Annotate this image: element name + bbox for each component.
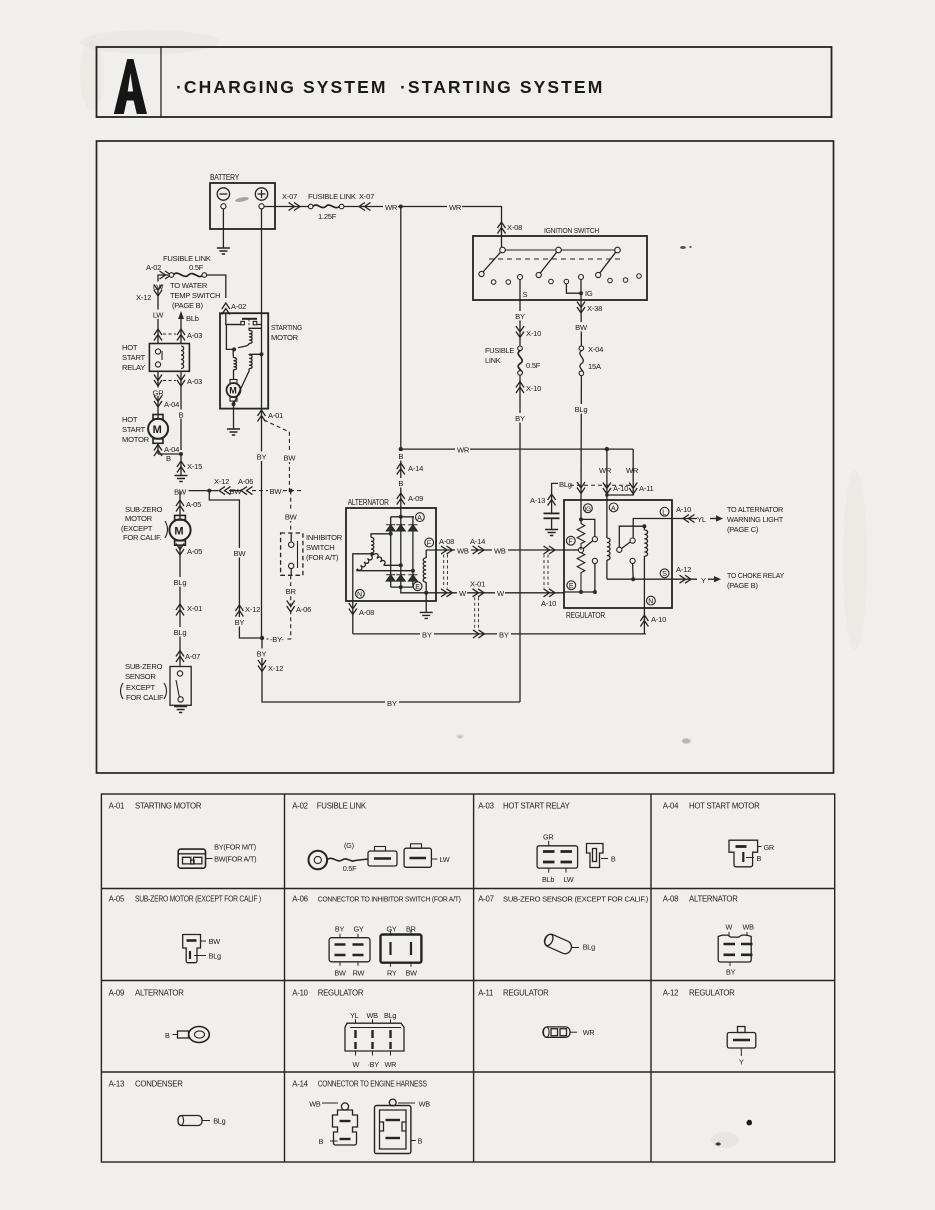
- terminal IG: [566, 275, 593, 301]
- connector A-14 on WB: [470, 537, 485, 554]
- wire BW elbow down (BY branch): [209, 491, 262, 638]
- svg-text:M: M: [174, 525, 183, 537]
- svg-text:A-03: A-03: [478, 802, 493, 811]
- cell A-10 regulator connector: [292, 989, 404, 1070]
- regulator S wire: [607, 577, 672, 581]
- svg-text:X-10: X-10: [526, 329, 541, 338]
- svg-text:BY: BY: [387, 699, 397, 708]
- svg-text:A-13: A-13: [109, 1080, 124, 1089]
- svg-text:(G): (G): [344, 841, 354, 850]
- cell A-09 alternator eye terminal: [109, 989, 210, 1043]
- cell A-12 regulator small: [663, 989, 756, 1067]
- cell A-06 connector to inhibitor switch: [292, 895, 460, 978]
- ground starting motor: [227, 429, 240, 435]
- svg-text:F: F: [568, 539, 572, 546]
- svg-text:X-07: X-07: [282, 192, 297, 201]
- svg-text:TO ALTERNATOR: TO ALTERNATOR: [727, 505, 784, 514]
- wire S to BY fusible link: [513, 300, 542, 346]
- svg-text:0.5F: 0.5F: [189, 263, 204, 272]
- svg-text:BW: BW: [209, 937, 221, 946]
- connector A-01: [258, 404, 284, 422]
- svg-text:(FOR A/T): (FOR A/T): [306, 553, 339, 562]
- connector BLg chevrons: [577, 482, 585, 494]
- label SUB-ZERO MOTOR: [121, 505, 168, 542]
- svg-text:X-12: X-12: [136, 293, 151, 302]
- fusible link 0.5F: [163, 254, 211, 277]
- label BY: [254, 452, 269, 462]
- svg-text:A-06: A-06: [292, 895, 307, 904]
- svg-text:CONDENSER: CONDENSER: [135, 1080, 183, 1089]
- regulator F wire: [564, 549, 578, 551]
- svg-text:(EXCEPT: (EXCEPT: [121, 524, 153, 533]
- svg-text:FUSIBLE LINK: FUSIBLE LINK: [308, 192, 356, 201]
- svg-text:STARTING: STARTING: [271, 323, 302, 332]
- svg-text:RELAY: RELAY: [122, 363, 145, 372]
- svg-text:GR: GR: [543, 833, 553, 842]
- sub-zero sensor: [170, 667, 191, 706]
- svg-text:ALTERNATOR: ALTERNATOR: [348, 498, 390, 507]
- cell A-11 regulator bullet: [478, 989, 594, 1038]
- svg-text:·BY: ·BY: [368, 1060, 380, 1069]
- node B coil junction: [260, 352, 264, 356]
- svg-text:BW·: BW·: [270, 487, 284, 496]
- svg-text:-BY-: -BY-: [270, 635, 284, 644]
- connector A-04 upper: [154, 396, 179, 419]
- svg-text:HOT START RELAY: HOT START RELAY: [503, 802, 571, 811]
- cell A-04 hot start motor: [663, 802, 774, 867]
- terminal S regulator: [660, 569, 669, 578]
- label -BY-: [269, 634, 287, 644]
- svg-text:BLb: BLb: [542, 875, 554, 884]
- cell A-14 connector to engine harness: [292, 1080, 430, 1154]
- svg-text:B: B: [398, 479, 403, 488]
- connector A-02 right: [222, 302, 246, 315]
- svg-text:BY(FOR M/T): BY(FOR M/T): [214, 843, 256, 852]
- connector X-08: [498, 222, 523, 234]
- wire BY below fusible link: [513, 375, 542, 702]
- node WR-B junction: [399, 447, 403, 451]
- svg-text:SUB-ZERO: SUB-ZERO: [125, 505, 163, 514]
- cell A-02 fusible link: [292, 802, 449, 874]
- svg-text:A-05: A-05: [186, 500, 201, 509]
- rotor field coil: [423, 550, 426, 593]
- terminal F regulator: [566, 536, 575, 545]
- svg-text:BY: BY: [515, 312, 525, 321]
- svg-text:A: A: [611, 505, 616, 512]
- label LW: [150, 282, 166, 292]
- ignition switch: [473, 236, 647, 300]
- label WR right: [447, 202, 462, 212]
- wire BW horizontal at 490.6: [172, 477, 303, 497]
- svg-text:X-15: X-15: [187, 462, 202, 471]
- svg-text:A-10: A-10: [676, 505, 691, 514]
- svg-text:Y: Y: [701, 576, 706, 585]
- ground battery: [217, 248, 230, 254]
- svg-text:WB: WB: [494, 546, 506, 555]
- svg-text:A-02: A-02: [146, 263, 161, 272]
- alternator top bus: [391, 515, 414, 519]
- terminal S: [518, 275, 528, 301]
- connector A-03 lower: [154, 371, 202, 450]
- label INHIBITOR SWITCH: [306, 533, 343, 562]
- svg-text:A-05: A-05: [187, 547, 202, 556]
- svg-text:A-12: A-12: [676, 565, 691, 574]
- svg-text:BY: BY: [257, 650, 267, 659]
- svg-text:IG: IG: [585, 506, 592, 513]
- svg-text:A: A: [417, 515, 422, 522]
- label STARTING MOTOR: [271, 323, 302, 342]
- sub-zero motor branch: [176, 491, 201, 519]
- svg-text:B: B: [166, 454, 171, 463]
- wire rotor to ground: [425, 593, 427, 613]
- svg-text:HOT: HOT: [122, 415, 138, 424]
- ground X-15: [175, 476, 188, 482]
- svg-text:A-10: A-10: [541, 599, 556, 608]
- wire WR branch vertical: [400, 207, 402, 450]
- svg-text:HOT: HOT: [122, 343, 138, 352]
- svg-text:E: E: [569, 583, 574, 590]
- svg-text:A-06: A-06: [238, 477, 253, 486]
- wire BY return N line: [353, 629, 646, 639]
- wire WR drop A-10: [599, 449, 628, 495]
- svg-text:BLg: BLg: [575, 405, 588, 414]
- regulator A coil branch: [607, 500, 610, 579]
- label WR mid: [455, 444, 470, 454]
- svg-text:FOR CALIF.: FOR CALIF.: [123, 533, 162, 542]
- starting motor holding coil: [233, 349, 236, 379]
- label WR: [383, 202, 398, 212]
- svg-text:A-04: A-04: [164, 400, 179, 409]
- svg-text:RY: RY: [387, 969, 397, 978]
- svg-text:WR: WR: [385, 203, 398, 212]
- wire B elbow to X-15 ground: [158, 452, 202, 475]
- svg-text:B: B: [398, 452, 403, 461]
- cell A-07 sub-zero sensor: [478, 895, 648, 956]
- svg-text:MOTOR: MOTOR: [271, 333, 299, 342]
- node BY junction 638: [260, 636, 264, 640]
- ignition switch terminal row: [491, 274, 641, 285]
- svg-text:BW: BW: [234, 549, 247, 558]
- starting motor M: [227, 380, 241, 402]
- svg-text:A-08: A-08: [359, 608, 374, 617]
- wire A-02 into solenoid: [226, 313, 241, 324]
- svg-text:BLb: BLb: [186, 314, 199, 323]
- wire below sub-zero motor: [171, 544, 203, 667]
- svg-text:N: N: [357, 592, 362, 599]
- svg-text:WB: WB: [309, 1100, 321, 1109]
- svg-text:ALTERNATOR: ALTERNATOR: [689, 895, 738, 904]
- scan shading: [80, 30, 867, 1148]
- wire S out to choke relay: [672, 565, 721, 585]
- schematic frame: [97, 141, 834, 773]
- svg-text:0.5F: 0.5F: [526, 361, 541, 370]
- svg-text:GY: GY: [354, 925, 364, 934]
- svg-text:A-04: A-04: [164, 445, 179, 454]
- svg-text:WARNING LIGHT: WARNING LIGHT: [727, 515, 784, 524]
- sub-zero motor: [169, 515, 190, 545]
- svg-text:IGNITION SWITCH: IGNITION SWITCH: [544, 226, 599, 235]
- svg-text:A-02: A-02: [292, 802, 307, 811]
- svg-text:BLg: BLg: [174, 628, 187, 637]
- regulator N wire down: [640, 556, 666, 634]
- svg-text:M: M: [229, 386, 236, 396]
- svg-text:BW: BW: [334, 969, 346, 978]
- svg-text:GY: GY: [387, 925, 397, 934]
- svg-text:W: W: [726, 923, 733, 932]
- svg-text:WB: WB: [367, 1011, 379, 1020]
- svg-text:A-05: A-05: [109, 895, 125, 904]
- label WB 1: [455, 545, 471, 555]
- svg-text:TO WATER: TO WATER: [170, 281, 208, 290]
- svg-text:(PAGE B): (PAGE B): [727, 581, 758, 590]
- title block frame: [97, 47, 832, 117]
- svg-text:EXCEPT: EXCEPT: [126, 683, 155, 692]
- svg-text:TEMP SWITCH: TEMP SWITCH: [170, 291, 220, 300]
- svg-text:REGULATOR: REGULATOR: [566, 611, 606, 620]
- svg-text:BLg: BLg: [583, 943, 595, 952]
- wire battery positive down to starting motor: [261, 209, 263, 313]
- svg-text:IG: IG: [585, 289, 593, 298]
- svg-text:E: E: [415, 584, 420, 591]
- svg-text:A-02: A-02: [231, 302, 246, 311]
- diode bridge columns: [391, 517, 413, 587]
- wire solenoid left contact loop: [226, 325, 240, 350]
- svg-text:WR: WR: [583, 1028, 595, 1037]
- svg-text:S: S: [662, 571, 667, 578]
- node solenoid junction: [232, 347, 236, 351]
- cell A-05 sub-zero motor: [109, 895, 262, 963]
- svg-text:A-09: A-09: [408, 494, 423, 503]
- terminal E regulator: [567, 581, 576, 590]
- smudge marks: [458, 246, 692, 744]
- ignition switch blades: [479, 252, 620, 277]
- svg-text:RW: RW: [353, 969, 365, 978]
- connector A-03 upper: [154, 329, 202, 341]
- svg-text:LW: LW: [153, 311, 164, 320]
- svg-text:A-08: A-08: [439, 537, 454, 546]
- svg-text:A-12: A-12: [663, 989, 678, 998]
- svg-text:X-08: X-08: [507, 223, 522, 232]
- wire BY solid from A-01 down: [261, 420, 263, 638]
- starting motor solenoid contacts: [241, 319, 257, 327]
- svg-text:·CHARGING SYSTEM: ·CHARGING SYSTEM: [176, 77, 388, 97]
- ground condenser: [545, 530, 558, 536]
- svg-text:B: B: [179, 411, 184, 420]
- svg-text:X-07: X-07: [359, 192, 374, 201]
- svg-text:A-07: A-07: [478, 895, 493, 904]
- svg-text:A-04: A-04: [663, 802, 679, 811]
- svg-text:A-11: A-11: [478, 989, 493, 998]
- svg-text:BR: BR: [286, 587, 297, 596]
- connector X-12: [136, 285, 162, 303]
- stray ink marks: [716, 1120, 752, 1146]
- svg-text:A-11: A-11: [639, 484, 654, 493]
- regulator cutout relay: [617, 524, 648, 579]
- connector X-38: [577, 302, 602, 314]
- svg-text:WR: WR: [385, 1060, 397, 1069]
- svg-text:0.5F: 0.5F: [343, 864, 357, 873]
- starting motor: [220, 313, 268, 408]
- connector A-08 on N wire: [349, 603, 374, 617]
- svg-text:X-12: X-12: [214, 477, 229, 486]
- svg-text:BW: BW: [575, 323, 588, 332]
- svg-text:HOT START MOTOR: HOT START MOTOR: [689, 802, 760, 811]
- svg-text:X-01: X-01: [187, 604, 202, 613]
- smudge near battery: [235, 196, 249, 202]
- svg-text:W: W: [459, 589, 467, 598]
- svg-text:CONNECTOR TO INHIBITOR SWITCH: CONNECTOR TO INHIBITOR SWITCH (FOR A/T): [318, 897, 461, 904]
- svg-text:X-10: X-10: [526, 384, 541, 393]
- svg-text:START: START: [122, 425, 146, 434]
- svg-text:LW: LW: [440, 855, 450, 864]
- cell A-03 hot start relay: [478, 802, 616, 885]
- starting motor series coil: [234, 354, 262, 404]
- diodes bottom row: [386, 575, 417, 581]
- wire battery positive bus: [264, 207, 501, 248]
- svg-text:A-08: A-08: [663, 895, 678, 904]
- terminal L regulator: [660, 507, 669, 516]
- svg-text:(PAGE C): (PAGE C): [727, 525, 759, 534]
- svg-text:1.25F: 1.25F: [318, 212, 337, 221]
- svg-text:REGULATOR: REGULATOR: [318, 989, 364, 998]
- wire BLg below fuse: [572, 375, 591, 500]
- fuse 15A: [579, 345, 603, 376]
- alternator bottom bus: [391, 585, 413, 589]
- section letter A: [114, 59, 147, 114]
- wire LW column to hot start relay: [157, 290, 159, 344]
- svg-text:BLg: BLg: [174, 578, 187, 587]
- svg-text:BY: BY: [422, 630, 432, 639]
- terminal E alternator: [413, 582, 422, 591]
- note to choke relay: [727, 571, 784, 590]
- cell A-08 alternator: [663, 895, 754, 977]
- starting motor pull-in coil: [238, 328, 261, 348]
- svg-text:SUB-ZERO: SUB-ZERO: [125, 662, 163, 671]
- svg-text:GR: GR: [764, 843, 774, 852]
- node WR junction: [399, 205, 403, 209]
- svg-text:WR: WR: [599, 466, 612, 475]
- label SUB-ZERO SENSOR: [121, 662, 167, 702]
- terminal IG regulator: [584, 504, 593, 513]
- wire BR below inhibitor: [264, 575, 311, 639]
- svg-text:BW(FOR A/T): BW(FOR A/T): [214, 855, 256, 864]
- terminal A: [416, 513, 425, 522]
- svg-text:INHIBITOR: INHIBITOR: [306, 533, 343, 542]
- label W 2: [495, 588, 505, 598]
- svg-text:FOR CALIF: FOR CALIF: [126, 693, 164, 702]
- wire fusible link 0.5F row: [158, 275, 226, 298]
- connector X-07 right: [359, 192, 374, 211]
- svg-text:A-03: A-03: [187, 377, 202, 386]
- svg-text:M: M: [153, 424, 162, 436]
- svg-text:·STARTING SYSTEM: ·STARTING SYSTEM: [400, 77, 604, 97]
- svg-text:L: L: [662, 510, 666, 517]
- terminal F alternator: [425, 538, 434, 547]
- svg-text:BLg: BLg: [559, 480, 572, 489]
- wire left phase long: [357, 569, 415, 573]
- svg-text:BW: BW: [284, 454, 297, 463]
- wire neutral to N: [353, 554, 372, 634]
- svg-text:REGULATOR: REGULATOR: [503, 989, 549, 998]
- svg-text:A-14: A-14: [470, 537, 485, 546]
- svg-text:YL: YL: [697, 515, 706, 524]
- svg-text:FUSIBLE: FUSIBLE: [485, 346, 514, 355]
- svg-text:TO CHOKE RELAY: TO CHOKE RELAY: [727, 571, 784, 580]
- label HOT START RELAY: [122, 343, 146, 372]
- svg-text:A-03: A-03: [187, 331, 202, 340]
- svg-text:BY: BY: [726, 968, 736, 977]
- fusible link 0.5F (S line): [485, 346, 541, 375]
- connector A-08 on WB/W: [439, 537, 454, 597]
- svg-text:WB: WB: [457, 546, 469, 555]
- node WR drop junction: [605, 447, 609, 451]
- svg-text:BY: BY: [499, 630, 509, 639]
- regulator E bottom wire: [564, 590, 597, 594]
- svg-text:A-01: A-01: [268, 411, 283, 420]
- label B right line: [177, 410, 185, 419]
- label HOT START MOTOR: [122, 415, 150, 444]
- svg-text:S: S: [523, 290, 528, 299]
- wire M to ground: [233, 401, 235, 429]
- connector A-10 on WB/W: [541, 546, 556, 608]
- svg-text:STARTING MOTOR: STARTING MOTOR: [135, 802, 202, 811]
- ground alternator E: [420, 612, 433, 618]
- svg-text:MOTOR: MOTOR: [125, 514, 153, 523]
- svg-text:A-07: A-07: [185, 652, 200, 661]
- svg-text:BLg: BLg: [213, 1117, 225, 1126]
- connector table grid: [101, 794, 834, 1162]
- wire IG to fuse: [573, 300, 590, 346]
- terminal A regulator: [609, 503, 618, 512]
- terminal N regulator: [647, 596, 656, 605]
- ground sub-zero sensor: [174, 707, 187, 713]
- wire WR drop A-11: [605, 449, 653, 500]
- svg-text:SENSOR: SENSOR: [125, 672, 156, 681]
- wire battery negative to ground: [222, 209, 224, 248]
- svg-text:REGULATOR: REGULATOR: [689, 989, 735, 998]
- battery: [210, 183, 275, 229]
- svg-text:A-01: A-01: [109, 802, 124, 811]
- svg-text:Y: Y: [739, 1058, 744, 1067]
- svg-text:A-09: A-09: [109, 989, 124, 998]
- svg-text:X-38: X-38: [587, 304, 602, 313]
- regulator L wire: [633, 519, 672, 539]
- svg-text:CONNECTOR TO ENGINE HARNESS: CONNECTOR TO ENGINE HARNESS: [318, 1080, 427, 1089]
- wire B to alternator: [396, 449, 423, 517]
- svg-text:BY: BY: [515, 414, 525, 423]
- svg-text:F: F: [427, 540, 431, 547]
- wire F WB line: [426, 549, 564, 551]
- svg-text:B: B: [165, 1031, 170, 1040]
- note to alternator warning light: [727, 505, 784, 534]
- svg-text:LINK: LINK: [485, 356, 501, 365]
- svg-text:X-12: X-12: [268, 664, 283, 673]
- svg-text:BW: BW: [230, 487, 243, 496]
- diodes top row: [386, 525, 417, 531]
- label LW 2: [150, 310, 166, 320]
- label GR: [150, 388, 166, 398]
- wire E line: [401, 587, 564, 595]
- svg-text:SUB-ZERO MOTOR (EXCEPT FOR CAL: SUB-ZERO MOTOR (EXCEPT FOR CALIF ): [135, 895, 262, 904]
- connector A-04 lower: [154, 443, 179, 456]
- inhibitor switch: [281, 533, 303, 575]
- svg-text:WB: WB: [743, 923, 755, 932]
- condenser A-13: [530, 483, 560, 529]
- svg-text:B: B: [611, 855, 616, 864]
- svg-text:YL: YL: [350, 1011, 359, 1020]
- svg-text:A-10: A-10: [651, 615, 666, 624]
- svg-text:(PAGE B): (PAGE B): [172, 301, 203, 310]
